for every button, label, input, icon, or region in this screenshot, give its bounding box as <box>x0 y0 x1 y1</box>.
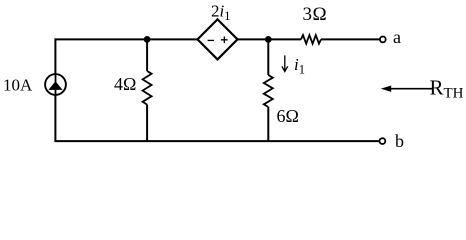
node junction dot 2 <box>265 36 272 43</box>
svg-text:i1: i1 <box>294 55 305 77</box>
R_TH arrow (pointing left) <box>381 86 433 92</box>
svg-text:4Ω: 4Ω <box>114 74 136 94</box>
wire top right (3-ohm resistor to terminal a) <box>321 38 380 40</box>
wire bottom <box>54 140 380 142</box>
node label a <box>393 27 401 47</box>
wire right branch upper (node to 6-ohm resistor) <box>267 39 269 75</box>
terminal b (open circle) <box>380 138 386 144</box>
wire right branch lower (6-ohm resistor to bottom) <box>267 107 269 141</box>
svg-text:3Ω: 3Ω <box>303 4 328 25</box>
dependent voltage source 2i1 (diamond) <box>198 19 238 59</box>
wire left vertical <box>54 38 56 141</box>
svg-text:a: a <box>393 27 401 47</box>
svg-text:RTH: RTH <box>430 76 464 102</box>
svg-text:6Ω: 6Ω <box>277 106 299 126</box>
wire top-left segment (node to dependent source) <box>55 38 197 40</box>
svg-text:10A: 10A <box>3 76 33 95</box>
value label 6-ohm <box>277 106 299 126</box>
node label b <box>395 131 404 151</box>
wire middle branch lower (4-ohm resistor to bottom) <box>146 105 148 142</box>
current arrow i1 (downward) <box>282 55 288 71</box>
value label 10A <box>3 76 33 95</box>
value label 3-ohm <box>303 4 328 25</box>
svg-text:b: b <box>395 131 404 151</box>
resistor 4-ohm (zigzag) <box>143 71 152 105</box>
resistor 6-ohm (zigzag) <box>264 75 273 107</box>
node junction dot 1 <box>144 36 151 43</box>
terminal a (open circle) <box>380 37 386 43</box>
label R_TH <box>430 76 464 102</box>
value label 2i1 <box>211 2 230 24</box>
current label i1 <box>294 55 305 77</box>
value label 4-ohm <box>114 74 136 94</box>
wire top middle (dependent source to 3-ohm resistor) <box>238 38 302 40</box>
current source I1 10A <box>45 74 66 95</box>
wire middle branch upper (node to 4-ohm resistor) <box>146 39 148 71</box>
resistor 3-ohm (zigzag) <box>301 35 321 44</box>
svg-text:2i1: 2i1 <box>211 2 230 24</box>
